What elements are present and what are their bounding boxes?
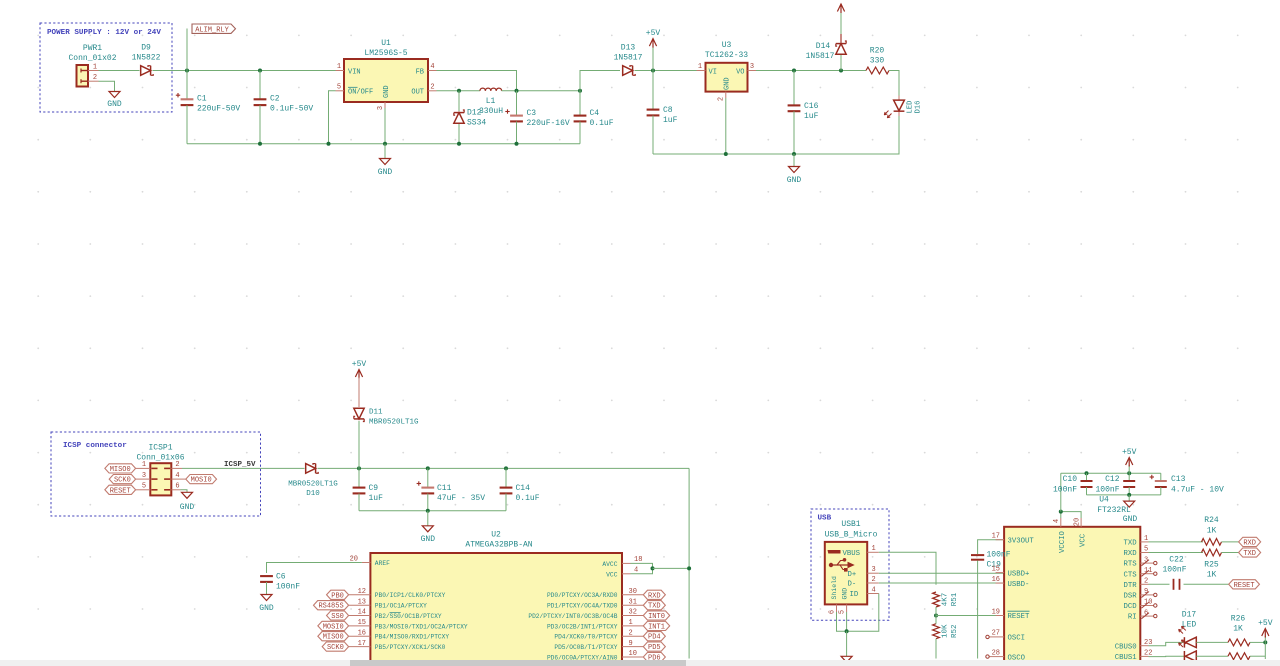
svg-text:10K: 10K xyxy=(942,624,950,638)
svg-text:28: 28 xyxy=(992,649,1000,657)
svg-text:2: 2 xyxy=(718,97,726,101)
svg-text:TC1262-33: TC1262-33 xyxy=(705,51,748,60)
svg-text:30: 30 xyxy=(629,588,637,596)
ground GND U3 rail xyxy=(793,154,795,167)
wire VCC to +5V drop xyxy=(653,567,690,569)
pin 4 USB ID xyxy=(867,593,879,595)
svg-text:C4: C4 xyxy=(590,109,600,118)
power +5V D17 xyxy=(1264,636,1266,642)
hier label RESET xyxy=(1229,580,1260,589)
diode D11 MBR0520LT1G xyxy=(354,408,364,419)
svg-text:GND: GND xyxy=(378,168,393,177)
pin 16 U4 USBD- xyxy=(996,582,1005,584)
svg-text:D+: D+ xyxy=(848,571,857,579)
capacitor C22 100nF xyxy=(1173,579,1175,590)
overline SS0 pin name xyxy=(390,612,401,614)
svg-text:D16: D16 xyxy=(915,101,923,114)
wire R51 junction to RESET pin xyxy=(936,615,1004,617)
wire R20 to LED D16 xyxy=(889,71,899,96)
wire AVCC VCC bracket xyxy=(631,563,653,573)
svg-text:1N5817: 1N5817 xyxy=(614,54,643,63)
svg-text:OSCI: OSCI xyxy=(1008,635,1026,643)
hier label INT1 xyxy=(643,621,669,630)
svg-text:5: 5 xyxy=(337,83,341,91)
svg-text:VCC: VCC xyxy=(606,571,618,578)
usb icon xyxy=(828,550,841,554)
wire DTR to C22 xyxy=(1149,583,1170,585)
svg-text:PB0: PB0 xyxy=(331,592,344,600)
junction node VIN-rail x187 xyxy=(185,69,189,73)
svg-text:14: 14 xyxy=(358,609,366,617)
svg-text:D10: D10 xyxy=(306,490,320,498)
ground GND USB xyxy=(846,631,848,656)
svg-text:2: 2 xyxy=(629,629,633,637)
wire LED to rail xyxy=(653,116,899,154)
svg-text:1: 1 xyxy=(337,63,341,71)
svg-text:+5V: +5V xyxy=(1122,448,1137,457)
LED D18 partial xyxy=(1185,651,1196,661)
wire D13 to U3 VI xyxy=(635,70,697,72)
hier label PD4 xyxy=(643,632,665,641)
svg-text:PB3/MOSI0/TXD1/OC2A/PTCXY: PB3/MOSI0/TXD1/OC2A/PTCXY xyxy=(375,623,468,630)
wire VO to R20 xyxy=(756,70,866,72)
resistor R51 4K7 xyxy=(933,592,940,607)
svg-text:R20: R20 xyxy=(870,47,885,56)
svg-text:U3: U3 xyxy=(722,41,732,50)
svg-text:PD5/OC0B/T1/PTCXY: PD5/OC0B/T1/PTCXY xyxy=(554,644,617,651)
pin 31 U2 PD1/PTCXY/OC4A/TXD0 xyxy=(622,604,643,606)
wire PWR1 pin2 to GND xyxy=(99,81,115,91)
pin 15 U4 USBD+ xyxy=(996,572,1005,574)
svg-text:GND: GND xyxy=(724,77,732,90)
resistor R27 partial xyxy=(1228,653,1250,660)
resistor R25 1K xyxy=(1202,549,1222,556)
svg-text:C9: C9 xyxy=(369,484,379,493)
svg-text:2: 2 xyxy=(872,576,876,584)
svg-text:INT0: INT0 xyxy=(648,613,665,621)
pin 13 U2 PB1/OC1A/PTCXY xyxy=(349,604,371,606)
junction C4 node xyxy=(578,89,582,93)
capacitor C11 47uF-35V xyxy=(427,468,429,487)
svg-text:1: 1 xyxy=(93,63,97,71)
svg-text:LED: LED xyxy=(907,101,915,114)
scrollbar xyxy=(0,660,1280,666)
diode D12 SS34 xyxy=(458,91,460,111)
pin 2 U2 PD4/XCK0/T0/PTCXY xyxy=(622,635,643,637)
pin 5 USB GND xyxy=(846,604,848,612)
svg-text:330uH: 330uH xyxy=(479,107,503,116)
bottom rail caps ICSP xyxy=(359,510,506,512)
wire D10 to U2 rail xyxy=(318,467,690,469)
svg-text:1: 1 xyxy=(698,63,702,71)
wire OUT to L1 xyxy=(437,90,481,92)
pin 12 U2 PB0/ICP1/CLK0/PTCXY xyxy=(349,594,371,596)
ground GND U4 caps xyxy=(1128,495,1130,501)
power +5V U4 xyxy=(1128,465,1130,473)
svg-text:Conn_01x02: Conn_01x02 xyxy=(68,54,116,63)
wire ID down xyxy=(847,594,879,632)
capacitor C19 100nF xyxy=(971,554,984,556)
wire D17 to R26 xyxy=(1196,641,1228,643)
svg-text:100nF: 100nF xyxy=(1162,566,1186,575)
svg-text:C13: C13 xyxy=(1171,475,1186,484)
svg-text:15: 15 xyxy=(358,619,366,627)
wire VCCIO riser xyxy=(1060,473,1062,511)
svg-text:R25: R25 xyxy=(1204,560,1219,569)
svg-text:C8: C8 xyxy=(663,106,673,115)
svg-text:6: 6 xyxy=(829,610,837,614)
svg-text:CBUS0: CBUS0 xyxy=(1115,643,1137,651)
ground GND caps xyxy=(427,511,429,526)
hier label SS0 xyxy=(327,611,349,620)
svg-text:GND: GND xyxy=(787,176,802,185)
svg-text:PB5/PTCXY/XCK1/SCK0: PB5/PTCXY/XCK1/SCK0 xyxy=(375,644,446,651)
svg-text:GND: GND xyxy=(842,588,849,600)
ground GND PWR1 xyxy=(109,92,120,98)
pin 1 U1 xyxy=(336,70,345,72)
svg-text:ICSP_5V: ICSP_5V xyxy=(224,461,256,469)
ground GND U1 rail xyxy=(384,144,386,159)
svg-text:OUT: OUT xyxy=(411,89,424,97)
pin 17 U2 PB5/PTCXY/XCK1/SCK0 xyxy=(349,646,371,648)
svg-text:C2: C2 xyxy=(270,95,280,104)
diode D10 MBR0520LT1G xyxy=(306,464,316,474)
svg-text:ATMEGA32BPB-AN: ATMEGA32BPB-AN xyxy=(465,541,532,550)
svg-text:220uF-50V: 220uF-50V xyxy=(197,105,240,114)
pin 15 U2 PB3/MOSI0/TXD1/OC2A/PTCXY xyxy=(349,625,371,627)
svg-text:GND: GND xyxy=(180,503,195,512)
svg-text:C1: C1 xyxy=(197,95,207,104)
bottom rail power supply xyxy=(187,143,580,145)
svg-text:VCCIO: VCCIO xyxy=(1059,530,1067,553)
svg-text:PD2/PTCXY/INT0/OC3B/OC4B: PD2/PTCXY/INT0/OC3B/OC4B xyxy=(528,613,617,620)
junction D14 node xyxy=(839,69,843,73)
svg-text:MBR0520LT1G: MBR0520LT1G xyxy=(369,419,419,427)
note box ICSP connector xyxy=(51,432,261,516)
svg-text:330: 330 xyxy=(870,57,885,66)
wire ICSP pin2 net ICSP_5V xyxy=(171,467,182,469)
wire U3 GND to rail xyxy=(725,98,727,154)
svg-text:0.1uF-50V: 0.1uF-50V xyxy=(270,105,313,114)
svg-text:0.1uF: 0.1uF xyxy=(516,494,540,503)
capacitor C12 100nF xyxy=(1128,473,1130,481)
svg-text:U1: U1 xyxy=(381,39,391,48)
svg-text:RS485S: RS485S xyxy=(318,603,343,611)
svg-text:17: 17 xyxy=(992,533,1000,541)
note box USB xyxy=(811,509,889,620)
svg-text:100nF: 100nF xyxy=(276,583,300,592)
svg-text:47uF - 35V: 47uF - 35V xyxy=(437,494,485,503)
svg-text:VO: VO xyxy=(736,68,744,76)
wire D9 to VIN xyxy=(153,70,336,72)
svg-text:PD4: PD4 xyxy=(648,634,661,642)
svg-text:12: 12 xyxy=(358,588,366,596)
svg-text:D13: D13 xyxy=(621,44,636,53)
pin 5 U1 xyxy=(336,90,345,92)
svg-text:FT232RL: FT232RL xyxy=(1097,506,1131,515)
power +5V main xyxy=(652,46,654,71)
svg-text:C10: C10 xyxy=(1063,475,1078,484)
svg-text:1K: 1K xyxy=(1207,527,1217,536)
capacitor C4 0.1uF xyxy=(579,91,581,116)
wire L1 to C4 node xyxy=(502,90,580,92)
svg-text:1uF: 1uF xyxy=(804,112,819,121)
bottom cap rail U4 xyxy=(1087,494,1161,496)
pin 4 U1 xyxy=(428,70,437,72)
svg-text:RESET: RESET xyxy=(110,487,131,495)
pin 1 U2 PD3/OC2B/INT1/PTCXY xyxy=(622,625,643,627)
pin 3 USB D+ xyxy=(867,572,879,574)
capacitor C14 0.1uF xyxy=(505,468,507,487)
svg-text:15: 15 xyxy=(992,565,1000,573)
pin 20 AREF xyxy=(362,562,371,564)
hier label TXD xyxy=(1239,548,1261,557)
svg-text:R26: R26 xyxy=(1231,615,1246,624)
junction C11 node xyxy=(426,466,430,470)
svg-text:0.1uF: 0.1uF xyxy=(590,119,614,128)
svg-text:VI: VI xyxy=(709,68,717,76)
svg-text:DCD: DCD xyxy=(1123,603,1137,611)
wire shield gnd xyxy=(837,612,847,631)
svg-text:2: 2 xyxy=(93,74,97,82)
svg-text:MOSI0: MOSI0 xyxy=(191,477,212,485)
pin 32 U2 PD2/PTCXY/INT0/OC3B/OC4B xyxy=(622,615,643,617)
svg-text:1: 1 xyxy=(872,545,876,553)
capacitor C9 1uF xyxy=(358,468,360,487)
hier label MOSI0 xyxy=(171,478,186,480)
svg-text:220uF-16V: 220uF-16V xyxy=(527,119,570,128)
svg-text:ALIM_RLY: ALIM_RLY xyxy=(195,26,229,34)
junction D11-C9 node xyxy=(357,466,361,470)
svg-text:1N5817: 1N5817 xyxy=(806,52,835,61)
wire D+ to USBD+ xyxy=(879,572,1004,574)
svg-text:AVCC: AVCC xyxy=(602,561,617,568)
svg-text:LM2596S-5: LM2596S-5 xyxy=(364,49,407,58)
svg-text:4: 4 xyxy=(1053,519,1061,523)
capacitor C1 220uF-50V xyxy=(186,71,188,100)
svg-text:POWER SUPPLY : 12V or 24V: POWER SUPPLY : 12V or 24V xyxy=(47,29,161,37)
svg-text:DSR: DSR xyxy=(1123,593,1137,601)
svg-text:C6: C6 xyxy=(276,573,286,582)
pin 1 USB VBUS xyxy=(867,551,879,553)
svg-text:PD3/OC2B/INT1/PTCXY: PD3/OC2B/INT1/PTCXY xyxy=(547,623,618,630)
svg-text:R51: R51 xyxy=(951,592,959,606)
svg-text:SS34: SS34 xyxy=(467,119,486,128)
hier label RXD xyxy=(643,590,665,599)
power +5V D11 xyxy=(355,370,362,378)
svg-text:MBR0520LT1G: MBR0520LT1G xyxy=(288,480,338,488)
svg-text:GND: GND xyxy=(1123,515,1138,524)
svg-text:2: 2 xyxy=(430,83,434,91)
junction +5V node xyxy=(651,69,655,73)
svg-text:1N5822: 1N5822 xyxy=(132,54,161,63)
svg-text:TXD: TXD xyxy=(1123,540,1137,548)
wire D- to USBD- xyxy=(879,582,1004,584)
svg-text:CTS: CTS xyxy=(1123,571,1137,579)
pin 14 U2 PB2/SS0/OC1B/PTCXY xyxy=(349,615,371,617)
svg-text:+5V: +5V xyxy=(646,29,661,38)
wire ICSP pin6 to GND xyxy=(171,489,180,491)
svg-text:L1: L1 xyxy=(486,97,496,106)
svg-text:9: 9 xyxy=(629,640,633,648)
svg-text:RXD: RXD xyxy=(1243,539,1256,547)
svg-text:4: 4 xyxy=(430,63,434,71)
wire ALIM_RLY drop xyxy=(186,29,188,71)
pin 27 U4 OSCI xyxy=(989,636,1004,638)
capacitor C8 1uF xyxy=(652,71,654,110)
svg-text:GND: GND xyxy=(259,604,274,613)
wire U1 GND pin to rail xyxy=(384,108,386,144)
svg-text:+5V: +5V xyxy=(1258,619,1273,628)
svg-text:TXD: TXD xyxy=(648,603,661,611)
svg-text:RXD: RXD xyxy=(1123,550,1137,558)
svg-text:RXD: RXD xyxy=(648,592,661,600)
svg-text:RI: RI xyxy=(1128,614,1137,622)
wire VBUS to R51 xyxy=(879,552,936,585)
pin 2 U1 xyxy=(428,90,437,92)
wire PWR1 pin1 to D9 xyxy=(99,70,140,72)
hier label PD5 xyxy=(643,642,665,651)
pin 2 USB D- xyxy=(867,582,879,584)
svg-text:INT1: INT1 xyxy=(648,623,665,631)
svg-text:D-: D- xyxy=(848,581,857,589)
pin 9 U2 PD5/OC0B/T1/PTCXY xyxy=(622,646,643,648)
hier label INT0 xyxy=(643,611,669,620)
resistor R52 10K xyxy=(933,624,940,639)
pin 20 U4 VCC xyxy=(1080,518,1082,527)
svg-text:4K7: 4K7 xyxy=(942,593,950,607)
svg-text:27: 27 xyxy=(992,630,1000,638)
svg-text:17: 17 xyxy=(358,640,366,648)
svg-text:GND: GND xyxy=(421,535,436,544)
svg-text:GND: GND xyxy=(383,85,391,98)
svg-text:R52: R52 xyxy=(951,624,959,638)
svg-text:3: 3 xyxy=(872,566,876,574)
pin 17 U4 3V3OUT xyxy=(996,539,1005,541)
svg-text:MISO0: MISO0 xyxy=(110,466,131,474)
global label ALIM_RLY xyxy=(192,24,236,33)
svg-text:USBD+: USBD+ xyxy=(1008,570,1030,578)
svg-text:19: 19 xyxy=(992,608,1000,616)
junction C14 node xyxy=(504,466,508,470)
svg-text:MOSI0: MOSI0 xyxy=(323,623,344,631)
note box POWER SUPPLY xyxy=(40,23,172,112)
pin 2 U3 xyxy=(725,92,727,98)
pin 18 AVCC xyxy=(622,562,631,564)
svg-text:SS0: SS0 xyxy=(331,613,344,621)
svg-text:5: 5 xyxy=(839,610,847,614)
svg-text:VIN: VIN xyxy=(348,68,361,76)
capacitor C6 100nF xyxy=(260,575,273,577)
junction C16 node xyxy=(792,69,796,73)
svg-text:TXD: TXD xyxy=(1243,550,1256,558)
capacitor C10 100nF xyxy=(1086,473,1088,481)
svg-text:USB: USB xyxy=(818,515,832,523)
svg-text:1: 1 xyxy=(629,619,633,627)
svg-text:U2: U2 xyxy=(491,531,501,540)
hier label TXD xyxy=(643,601,665,610)
capacitor C16 1uF xyxy=(793,71,795,106)
svg-text:PD4/XCK0/T0/PTCXY: PD4/XCK0/T0/PTCXY xyxy=(554,634,617,641)
svg-text:32: 32 xyxy=(629,609,637,617)
svg-text:D11: D11 xyxy=(369,409,383,417)
hier label PD6 xyxy=(643,652,665,661)
svg-text:C14: C14 xyxy=(516,484,531,493)
hier label SCK0 xyxy=(322,642,348,651)
svg-text:SCK0: SCK0 xyxy=(327,644,344,652)
svg-text:VBUS: VBUS xyxy=(843,550,861,558)
hier label PB0 xyxy=(327,590,349,599)
svg-text:PB2/SS0/OC1B/PTCXY: PB2/SS0/OC1B/PTCXY xyxy=(375,613,442,620)
wire TXD to R24 xyxy=(1149,541,1204,543)
svg-text:C16: C16 xyxy=(804,102,819,111)
pin 19 U4 RESET xyxy=(996,615,1005,617)
pin 4 VCC xyxy=(622,573,631,575)
pin 16 U2 PB4/MISO0/RXD1/PTCXY xyxy=(349,635,371,637)
pin 3 U1 xyxy=(384,102,386,108)
LED D16 xyxy=(898,96,900,101)
svg-text:PB4/MISO0/RXD1/PTCXY: PB4/MISO0/RXD1/PTCXY xyxy=(375,634,450,641)
svg-text:1uF: 1uF xyxy=(369,494,384,503)
wire +5V rail to U2 AVCC drop xyxy=(688,468,690,658)
svg-text:ON/OFF: ON/OFF xyxy=(348,89,373,97)
wire AREF to C6 xyxy=(267,563,362,574)
svg-text:PD1/PTCXY/OC4A/TXD0: PD1/PTCXY/OC4A/TXD0 xyxy=(547,603,618,610)
junction D12 node xyxy=(457,89,461,93)
top cap rail U4 xyxy=(1061,472,1161,474)
pin 30 U2 PD0/PTCXY/OC3A/RXD0 xyxy=(622,594,643,596)
svg-text:D9: D9 xyxy=(141,44,151,53)
hier label SCK0 xyxy=(136,478,151,480)
diode D14 1N5817 xyxy=(840,54,842,71)
pin 4 U4 VCCIO xyxy=(1060,518,1062,527)
hier label MISO0 xyxy=(318,632,349,641)
svg-text:PD5: PD5 xyxy=(648,644,661,652)
svg-text:C12: C12 xyxy=(1105,475,1120,484)
svg-text:C22: C22 xyxy=(1169,556,1184,565)
svg-text:C3: C3 xyxy=(527,109,537,118)
svg-text:1K: 1K xyxy=(1233,625,1243,634)
svg-text:USB_B_Micro: USB_B_Micro xyxy=(825,531,878,540)
pin 6 USB Shield xyxy=(836,604,838,612)
svg-text:AREF: AREF xyxy=(375,560,390,567)
svg-text:20: 20 xyxy=(1074,518,1082,526)
svg-text:1uF: 1uF xyxy=(663,116,678,125)
pin 10 U2 PD6/OC0A/PTCXY/AIN0 xyxy=(622,656,643,658)
svg-text:ICSP connector: ICSP connector xyxy=(63,442,127,450)
svg-text:4: 4 xyxy=(872,586,876,594)
wire ON/OFF to rail xyxy=(329,91,336,144)
svg-text:31: 31 xyxy=(629,598,637,606)
svg-text:ICSP1: ICSP1 xyxy=(148,444,172,453)
power arrow top D14 xyxy=(840,12,842,34)
wire VCC bracket U4 xyxy=(1061,512,1081,518)
capacitor C13 4.7uF-10V xyxy=(1160,473,1162,481)
hier label RESET xyxy=(136,489,151,491)
svg-text:MISO0: MISO0 xyxy=(323,634,344,642)
svg-text:10: 10 xyxy=(629,650,637,658)
capacitor C2 0.1uF-50V xyxy=(259,71,261,100)
junction node VIN-rail x260 xyxy=(258,69,262,73)
svg-text:U4: U4 xyxy=(1099,496,1109,505)
wire RXD to R25 xyxy=(1149,552,1204,554)
svg-text:16: 16 xyxy=(358,629,366,637)
svg-text:13: 13 xyxy=(358,598,366,606)
svg-text:ID: ID xyxy=(850,591,859,599)
svg-text:PB0/ICP1/CLK0/PTCXY: PB0/ICP1/CLK0/PTCXY xyxy=(375,592,446,599)
hier label MISO0 xyxy=(136,467,151,469)
svg-text:SCK0: SCK0 xyxy=(114,477,131,485)
